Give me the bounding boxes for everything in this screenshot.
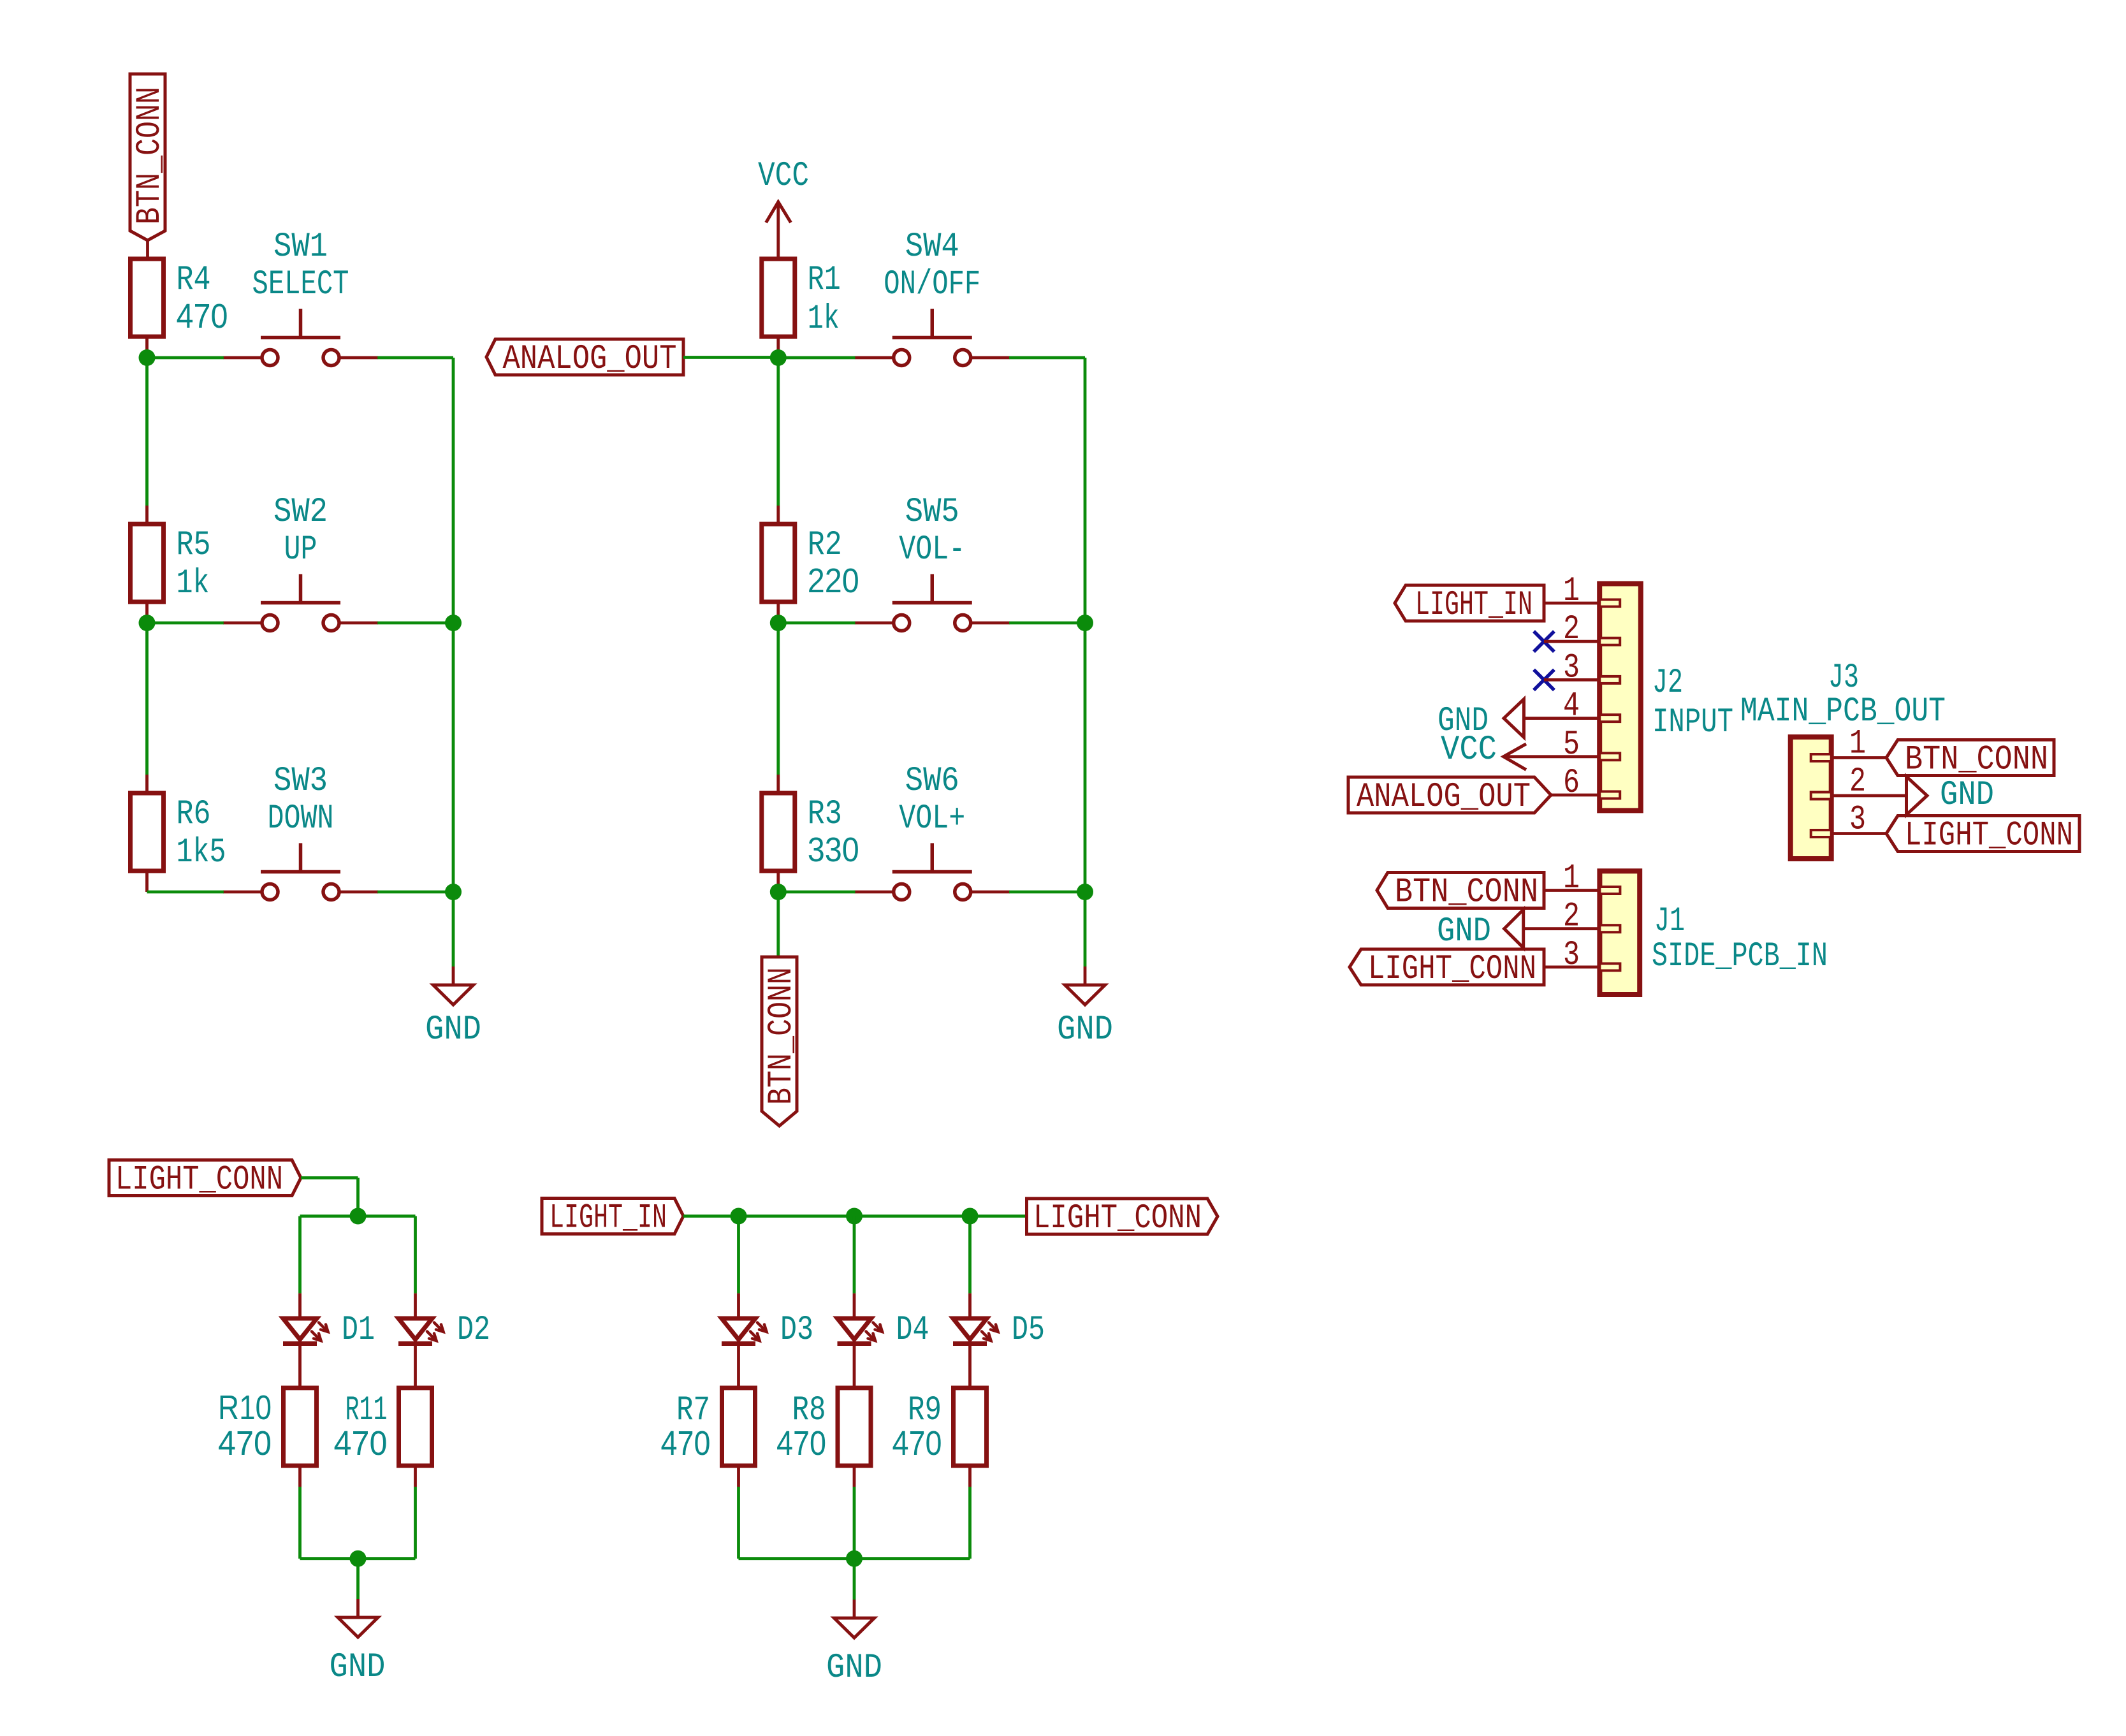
svg-text:LIGHT_CONN: LIGHT_CONN	[115, 1161, 283, 1200]
junction	[846, 1208, 863, 1225]
wire	[145, 775, 149, 892]
wire	[298, 1294, 302, 1388]
wire	[1831, 794, 1907, 798]
wire	[778, 891, 855, 894]
wire	[776, 775, 780, 892]
svg-text:ANALOG_OUT: ANALOG_OUT	[1357, 778, 1531, 817]
svg-text:SIDE_PCB_IN: SIDE_PCB_IN	[1652, 937, 1828, 976]
wire	[356, 1178, 360, 1216]
junction	[445, 615, 462, 631]
global label LIGHT_CONN	[1350, 949, 1544, 989]
no-connect X pin3	[1534, 669, 1599, 690]
wire	[970, 1214, 1027, 1218]
svg-text:SW4: SW4	[905, 228, 959, 266]
global label LIGHT_IN	[542, 1199, 683, 1238]
resistor R11	[334, 1388, 432, 1466]
junction	[770, 884, 787, 900]
ground	[1057, 966, 1113, 1049]
svg-text:1k5: 1k5	[177, 833, 226, 872]
svg-text:LIGHT_CONN: LIGHT_CONN	[1905, 817, 2073, 856]
wire	[301, 1176, 358, 1179]
junction	[846, 1550, 863, 1567]
wire	[1009, 356, 1085, 360]
resistor R2	[762, 524, 859, 602]
svg-text:6: 6	[1563, 764, 1580, 803]
svg-text:SW2: SW2	[273, 493, 328, 532]
resistor R4	[131, 259, 228, 337]
svg-text:LIGHT_CONN: LIGHT_CONN	[1033, 1199, 1202, 1238]
wire	[1544, 889, 1599, 892]
wire	[776, 506, 780, 623]
svg-text:INPUT: INPUT	[1652, 703, 1733, 742]
svg-text:R2: R2	[808, 526, 842, 565]
wire	[968, 1216, 972, 1294]
LED D3	[722, 1311, 813, 1350]
svg-text:R4: R4	[177, 261, 211, 300]
svg-text:LIGHT_IN: LIGHT_IN	[1415, 586, 1533, 625]
junction	[1077, 884, 1093, 900]
wire	[300, 1214, 416, 1218]
svg-text:470: 470	[776, 1424, 826, 1462]
wire	[147, 356, 224, 360]
resistor R6	[131, 793, 226, 872]
junction	[350, 1550, 367, 1567]
svg-text:BTN_CONN: BTN_CONN	[762, 967, 801, 1105]
wire	[300, 1557, 416, 1560]
global label LIGHT_CONN	[1886, 816, 2079, 856]
svg-text:5: 5	[1563, 726, 1580, 764]
global label LIGHT_CONN	[109, 1160, 301, 1200]
wire	[1084, 358, 1087, 892]
svg-text:VOL-: VOL-	[899, 530, 965, 569]
wire	[145, 623, 149, 775]
junction	[962, 1208, 979, 1225]
svg-text:GND: GND	[1437, 912, 1491, 951]
global label BTN_CONN	[1377, 873, 1544, 912]
wire	[1544, 966, 1599, 969]
svg-text:470: 470	[334, 1424, 388, 1462]
power flag VCC	[758, 157, 809, 259]
switch SW3 DOWN	[223, 762, 378, 900]
resistor R5	[131, 524, 211, 603]
wire	[414, 1487, 417, 1559]
svg-text:VOL+: VOL+	[899, 799, 965, 838]
resistor R3	[762, 793, 859, 871]
svg-text:330: 330	[808, 831, 859, 869]
wire	[414, 1216, 417, 1294]
connector J1 SIDE_PCB_IN	[1563, 859, 1828, 995]
wire	[1831, 832, 1886, 835]
wire	[1009, 622, 1085, 625]
junction	[139, 349, 156, 366]
wire	[853, 1294, 856, 1388]
svg-text:2: 2	[1563, 898, 1580, 937]
wire	[1009, 891, 1085, 894]
svg-text:BTN_CONN: BTN_CONN	[131, 87, 170, 224]
wire	[776, 337, 780, 358]
svg-text:VCC: VCC	[758, 157, 809, 196]
wire	[377, 891, 453, 894]
svg-text:J2: J2	[1652, 664, 1683, 703]
svg-text:SW1: SW1	[273, 228, 328, 266]
power label GND (J2 pin4)	[1438, 699, 1599, 741]
svg-text:1: 1	[1563, 859, 1580, 898]
wire	[298, 1216, 302, 1294]
LED D1	[283, 1311, 375, 1350]
svg-text:220: 220	[808, 562, 859, 600]
resistor R1	[762, 259, 841, 339]
junction	[770, 615, 787, 631]
svg-text:R10: R10	[218, 1389, 272, 1427]
connector J2 INPUT	[1563, 572, 1733, 810]
wire	[776, 892, 780, 957]
ground	[425, 966, 481, 1049]
wire	[1084, 892, 1087, 966]
wire	[1831, 756, 1886, 759]
wire	[739, 1557, 970, 1560]
wire	[776, 623, 780, 775]
svg-text:GND: GND	[826, 1649, 882, 1688]
resistor R9	[892, 1388, 987, 1466]
LED D2	[398, 1311, 490, 1350]
svg-text:D5: D5	[1012, 1311, 1045, 1350]
wire	[853, 1559, 856, 1600]
wire	[968, 1466, 972, 1487]
power label GND (J3 pin2)	[1907, 776, 1995, 815]
wire	[1524, 927, 1600, 930]
svg-text:MAIN_PCB_OUT: MAIN_PCB_OUT	[1740, 692, 1946, 731]
wire	[147, 891, 224, 894]
svg-text:R5: R5	[177, 526, 211, 565]
svg-text:3: 3	[1563, 936, 1580, 975]
switch SW6 VOL+	[855, 762, 1010, 900]
svg-text:SELECT: SELECT	[252, 265, 349, 304]
svg-text:1: 1	[1563, 572, 1580, 611]
LED D5	[953, 1311, 1045, 1350]
svg-text:ON/OFF: ON/OFF	[884, 265, 980, 304]
wire	[145, 358, 149, 506]
svg-text:R6: R6	[177, 795, 211, 834]
svg-text:GND: GND	[1940, 776, 1994, 815]
resistor R7	[661, 1388, 755, 1466]
svg-text:GND: GND	[425, 1010, 481, 1049]
wire	[683, 356, 778, 359]
junction	[1077, 615, 1093, 631]
connector J3 MAIN_PCB_OUT	[1740, 659, 1946, 859]
svg-text:1k: 1k	[177, 564, 210, 603]
wire	[1551, 794, 1599, 797]
switch SW4 ON/OFF	[855, 228, 1010, 366]
svg-text:J1: J1	[1654, 902, 1685, 941]
wire	[356, 1559, 360, 1599]
wire	[377, 622, 453, 625]
svg-text:GND: GND	[1057, 1010, 1113, 1049]
wire	[853, 1216, 856, 1294]
wire	[778, 356, 855, 360]
svg-text:D2: D2	[457, 1311, 490, 1350]
wire	[853, 1466, 856, 1487]
junction	[731, 1208, 747, 1225]
global label LIGHT_IN	[1395, 585, 1544, 625]
svg-text:GND: GND	[330, 1648, 386, 1687]
svg-text:470: 470	[892, 1424, 942, 1462]
svg-text:R1: R1	[808, 261, 841, 300]
wire	[298, 1487, 302, 1559]
junction	[139, 615, 156, 631]
wire	[377, 356, 453, 360]
resistor R10	[218, 1388, 317, 1466]
wire	[968, 1487, 972, 1559]
global label BTN_CONN (top)	[130, 74, 170, 240]
ground	[826, 1600, 882, 1688]
global label BTN_CONN	[1886, 740, 2054, 780]
global label LIGHT_CONN	[1027, 1199, 1218, 1238]
power label GND (J1 pin2)	[1437, 910, 1524, 951]
ground	[330, 1599, 386, 1687]
switch SW5 VOL-	[855, 493, 1010, 631]
wire	[968, 1294, 972, 1388]
wire	[737, 1294, 740, 1388]
wire	[853, 1487, 856, 1559]
wire	[683, 1214, 739, 1218]
junction	[770, 349, 787, 366]
junction	[350, 1208, 367, 1225]
LED D4	[838, 1311, 929, 1350]
wire	[452, 358, 455, 892]
svg-text:1k: 1k	[808, 300, 840, 339]
wire	[452, 892, 455, 966]
svg-text:LIGHT_CONN: LIGHT_CONN	[1368, 950, 1536, 989]
wire	[776, 358, 780, 506]
svg-text:J3: J3	[1828, 659, 1859, 697]
switch SW1 SELECT	[223, 228, 378, 366]
svg-text:3: 3	[1563, 648, 1580, 687]
svg-text:SW6: SW6	[905, 762, 959, 801]
wire	[737, 1466, 740, 1487]
svg-text:UP: UP	[284, 530, 317, 569]
svg-text:2: 2	[1563, 610, 1580, 649]
global label ANALOG_OUT	[1348, 777, 1551, 817]
wire	[739, 1214, 970, 1218]
svg-text:D1: D1	[342, 1311, 375, 1350]
wire	[145, 337, 149, 358]
global label BTN_CONN	[762, 957, 801, 1126]
svg-text:LIGHT_IN: LIGHT_IN	[550, 1199, 667, 1238]
svg-text:VCC: VCC	[1441, 731, 1497, 770]
wire	[145, 506, 149, 623]
switch SW2 UP	[223, 493, 378, 631]
svg-text:BTN_CONN: BTN_CONN	[1905, 741, 2048, 780]
wire	[414, 1294, 417, 1388]
svg-text:R3: R3	[808, 795, 842, 834]
no-connect X pin2	[1534, 631, 1599, 652]
wire	[737, 1216, 740, 1294]
wire	[146, 240, 149, 259]
svg-text:BTN_CONN: BTN_CONN	[1395, 873, 1538, 912]
wire	[300, 1466, 416, 1487]
svg-text:ANALOG_OUT: ANALOG_OUT	[503, 340, 677, 379]
wire	[778, 622, 855, 625]
junction	[445, 884, 462, 900]
resistor R8	[776, 1388, 871, 1466]
svg-text:470: 470	[177, 297, 228, 335]
svg-text:DOWN: DOWN	[268, 799, 334, 838]
svg-text:SW5: SW5	[905, 493, 959, 532]
svg-text:SW3: SW3	[273, 762, 328, 801]
global label ANALOG_OUT	[486, 339, 683, 379]
svg-text:D4: D4	[896, 1311, 929, 1350]
svg-text:470: 470	[218, 1424, 272, 1462]
svg-text:470: 470	[661, 1424, 711, 1462]
wire	[147, 622, 224, 625]
svg-text:4: 4	[1563, 687, 1580, 726]
wire	[737, 1487, 740, 1559]
svg-text:D3: D3	[780, 1311, 813, 1350]
power label VCC (J2 pin5)	[1441, 731, 1599, 770]
wire	[1544, 602, 1599, 605]
